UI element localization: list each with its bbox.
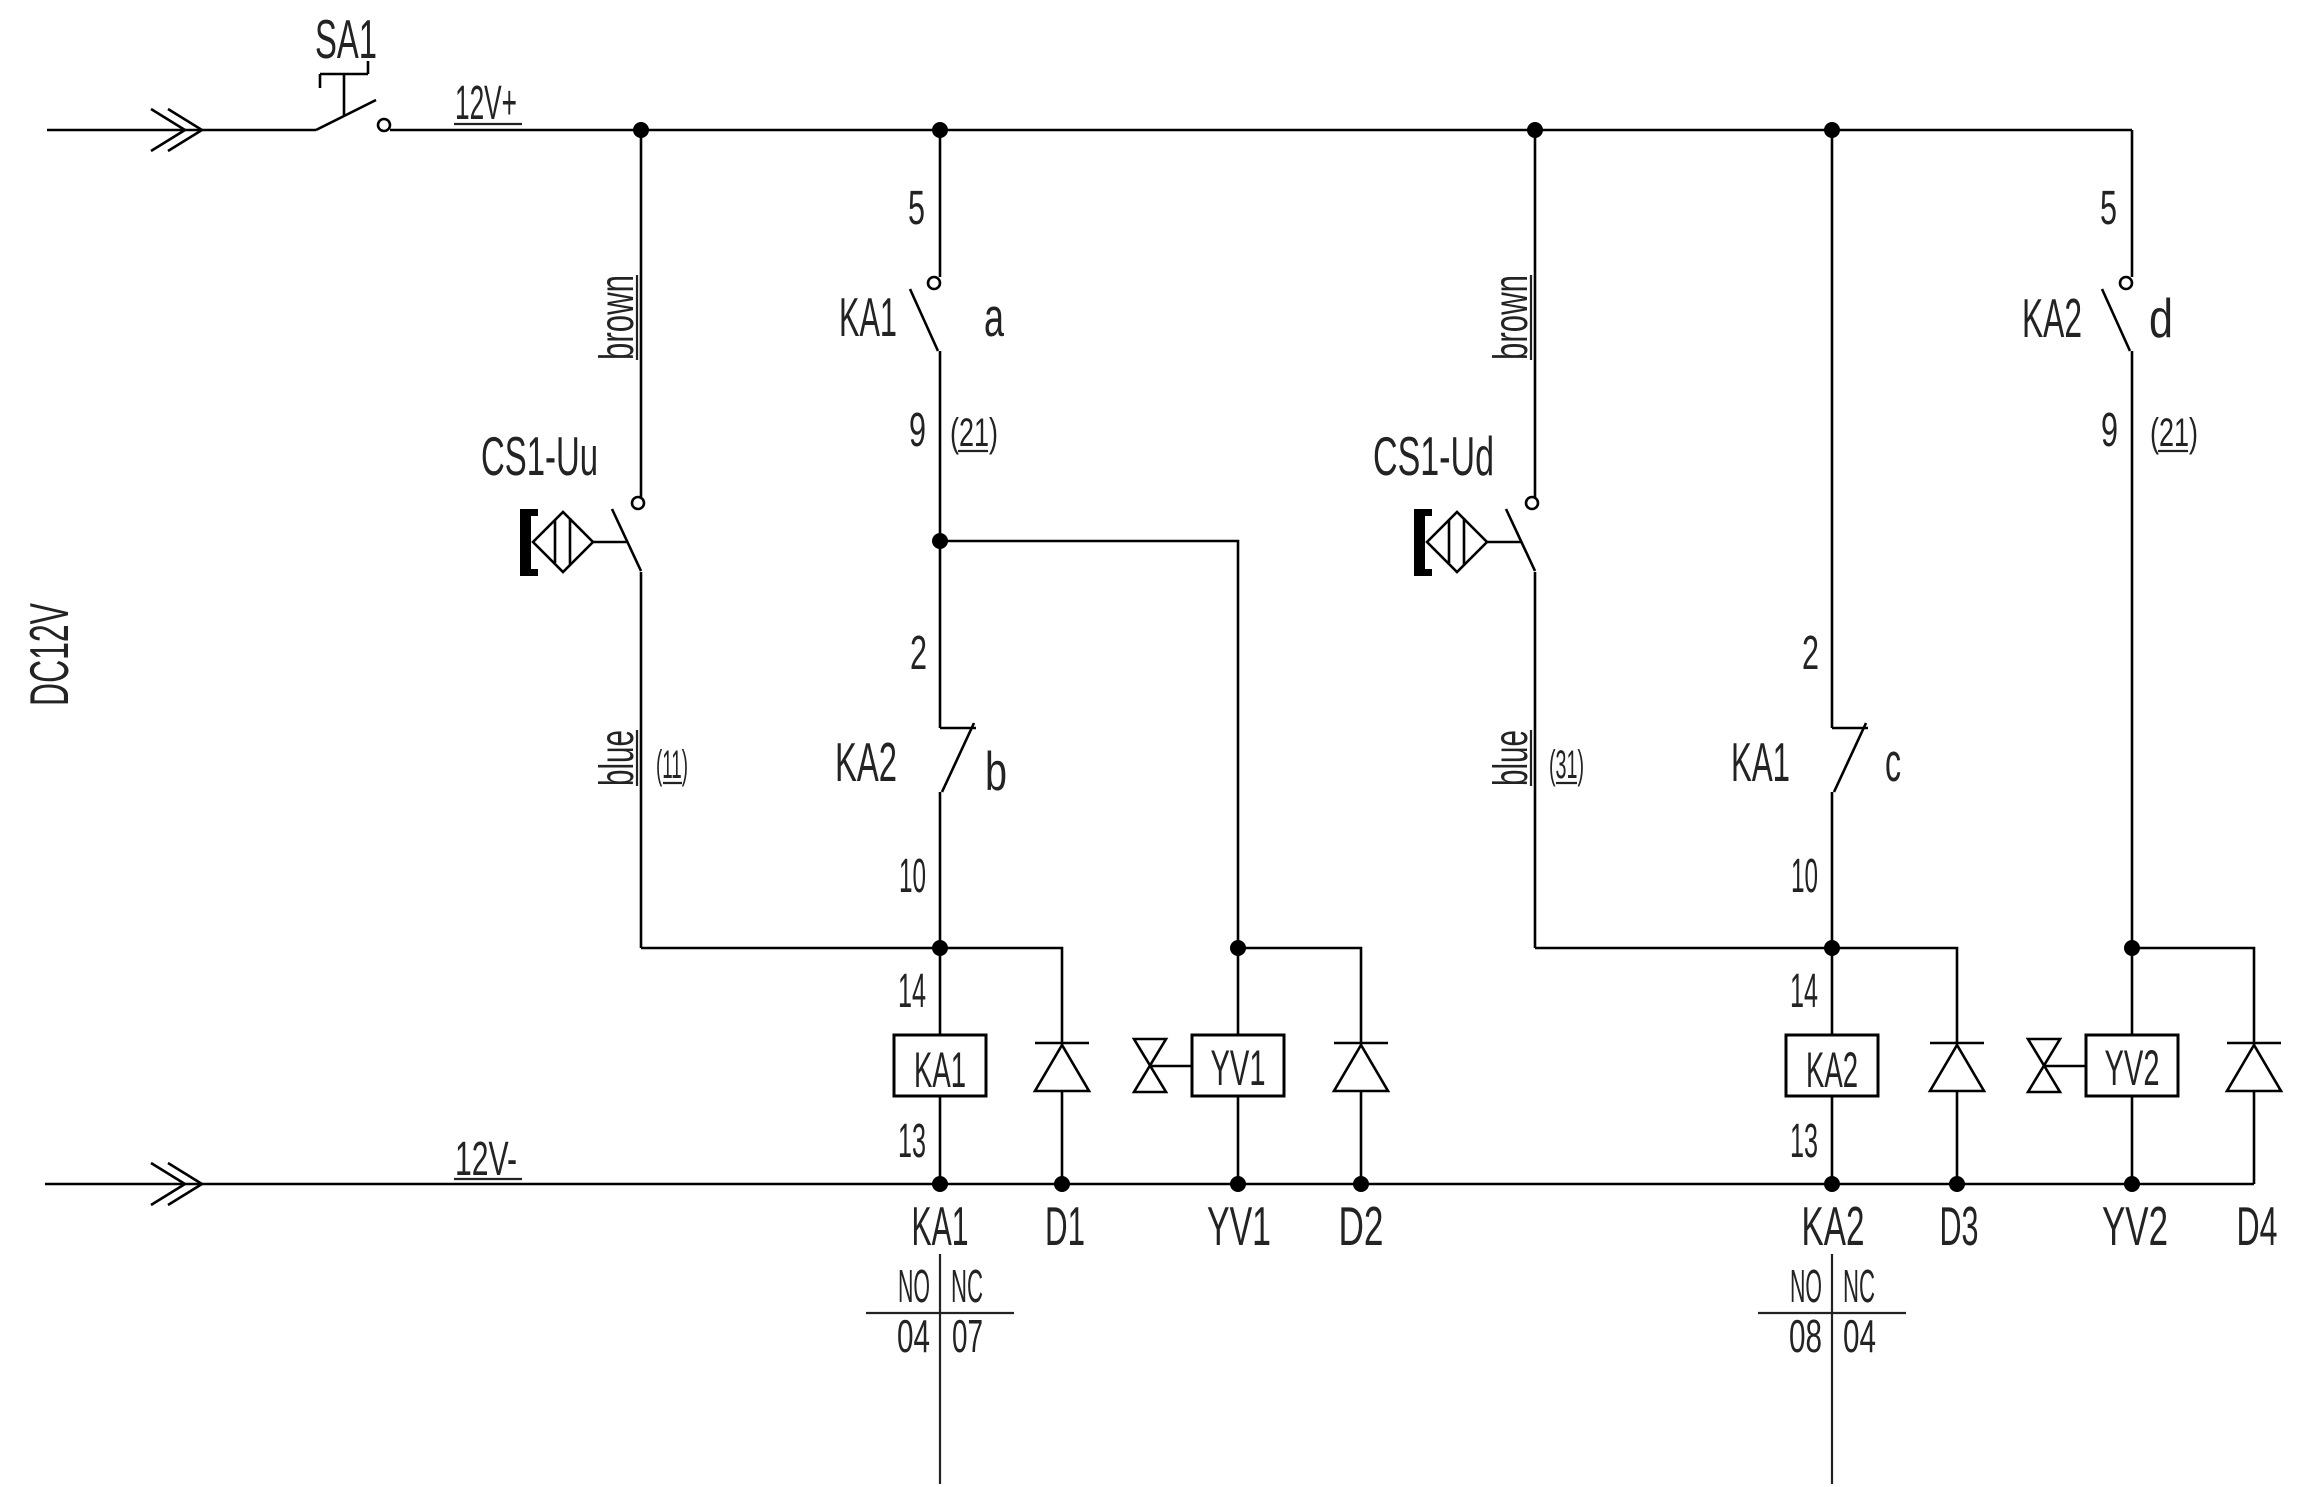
- svg-text:D4: D4: [2237, 1195, 2278, 1257]
- junction dot rail/KA1 coil: [932, 1176, 948, 1192]
- junction dot (2132,948): [2124, 940, 2140, 956]
- wire: KA2 chain rail to contact c: [1831, 130, 1834, 728]
- svg-text:KA2: KA2: [2022, 287, 2082, 349]
- svg-text:(21): (21): [2150, 411, 2198, 455]
- switch SA1 manual actuator: [320, 61, 368, 116]
- svg-text:YV2: YV2: [2105, 1040, 2160, 1096]
- svg-text:KA2: KA2: [1802, 1195, 1865, 1257]
- sensor CS1-Ud contact circle: [1526, 497, 1538, 509]
- wire: node to KA1 coil: [939, 948, 942, 1035]
- wire: blue drop right: [1534, 572, 1537, 948]
- wire: D2 to 12V- rail: [1360, 1091, 1363, 1184]
- switch SA1 blade: [316, 100, 376, 130]
- solenoid valve symbol YV2: [2028, 1039, 2086, 1092]
- svg-text:D1: D1: [1045, 1195, 1085, 1257]
- power entry chevron arrows (top left): [151, 109, 202, 151]
- svg-text:YV1: YV1: [1207, 1195, 1271, 1257]
- svg-text:KA1: KA1: [912, 1195, 969, 1257]
- svg-text:D3: D3: [1940, 1195, 1979, 1257]
- wire: YV1 coil to 12V- rail: [1237, 1096, 1240, 1184]
- wire: KA2-d contact to YV2 node: [2131, 351, 2134, 948]
- junction dot rail/D1: [1054, 1176, 1070, 1192]
- svg-text:KA1: KA1: [914, 1042, 966, 1098]
- sensor CS1-Uu diamond: [533, 512, 593, 572]
- switch SA1 fixed contact circle: [378, 119, 390, 131]
- wire: jog to YV1 drop: [940, 541, 1238, 948]
- svg-text:c: c: [1885, 731, 1901, 793]
- net tag (31): [1549, 743, 1584, 787]
- sensor CS1-Ud bracket: [1414, 509, 1432, 576]
- junction dot rail/YV2: [2124, 1176, 2140, 1192]
- junction dot brown-left / top rail: [633, 122, 649, 138]
- diode D2: [1334, 1043, 1388, 1091]
- svg-text:DC12V: DC12V: [18, 603, 80, 706]
- svg-text:b: b: [985, 740, 1007, 802]
- junction dot (940,541): [932, 533, 948, 549]
- diode D4: [2227, 1043, 2281, 1091]
- svg-text:9: 9: [909, 404, 926, 457]
- svg-text:9: 9: [2101, 404, 2118, 457]
- net label 12V+: [454, 77, 522, 130]
- contact table KA1 cross: [866, 1254, 1014, 1484]
- svg-text:2: 2: [910, 627, 927, 680]
- svg-text:07: 07: [952, 1310, 983, 1362]
- junction dot rail/KA2 coil: [1824, 1176, 1840, 1192]
- wire: D4 to 12V- rail: [2253, 1091, 2256, 1184]
- svg-text:(21): (21): [950, 411, 998, 455]
- junction dot (1832,948): [1824, 940, 1840, 956]
- svg-text:YV1: YV1: [1211, 1040, 1266, 1096]
- wire: KA2-d chain drop from rail corner: [2131, 130, 2134, 277]
- svg-text:14: 14: [1790, 965, 1818, 1018]
- wire: YV2 coil to 12V- rail: [2131, 1096, 2134, 1184]
- contact KA1 a (NO): [910, 277, 940, 351]
- svg-text:NC: NC: [951, 1260, 983, 1312]
- wire: blue drop left: [640, 572, 643, 948]
- sensor CS1-Uu link: [593, 541, 627, 544]
- wire label blue (left, underlined): [591, 730, 644, 786]
- net label 12V-: [454, 1133, 522, 1186]
- contact KA2 d (NO): [2102, 277, 2132, 351]
- wire: KA1 chain node to contact b: [939, 541, 942, 728]
- svg-text:D2: D2: [1339, 1195, 1384, 1257]
- wire: brown drop right: [1534, 130, 1537, 497]
- wire: KA1 coil to 12V- rail: [939, 1096, 942, 1184]
- junction dot YV1 (1238,948): [1230, 940, 1246, 956]
- svg-text:KA1: KA1: [1731, 731, 1790, 793]
- svg-text:13: 13: [898, 1115, 926, 1168]
- wire: KA2 chain contact c to node: [1831, 792, 1834, 948]
- solenoid coil YV2 box: [2086, 1035, 2178, 1096]
- wire: 12V+ top rail right of SA1: [390, 129, 2132, 132]
- svg-text:5: 5: [908, 182, 925, 235]
- svg-text:04: 04: [897, 1310, 930, 1362]
- svg-text:CS1-Ud: CS1-Ud: [1373, 425, 1494, 487]
- wire: YV1 node to D2 drop: [1238, 948, 1361, 1043]
- wire: 12V+ top rail left segment: [47, 129, 316, 132]
- svg-text:12V+: 12V+: [455, 77, 517, 130]
- wire: D3 to 12V- rail: [1956, 1091, 1959, 1184]
- svg-text:(31): (31): [1549, 743, 1584, 787]
- junction dot rail/YV1: [1230, 1176, 1246, 1192]
- wire: node to D3 drop: [1832, 948, 1957, 1043]
- svg-text:04: 04: [1843, 1310, 1876, 1362]
- svg-text:(11): (11): [656, 743, 688, 787]
- svg-text:NC: NC: [1843, 1260, 1875, 1312]
- svg-text:14: 14: [898, 965, 926, 1018]
- wire: KA2 coil to 12V- rail: [1831, 1096, 1834, 1184]
- sensor CS1-Ud link: [1487, 541, 1521, 544]
- junction dot rail/D3: [1949, 1176, 1965, 1192]
- solenoid valve symbol YV1: [1134, 1039, 1192, 1092]
- wire: horizontal blue-left to KA1 node: [641, 947, 940, 950]
- junction dot rail/D2: [1353, 1176, 1369, 1192]
- junction dot brown-right / top rail: [1527, 122, 1543, 138]
- net tag (21) left: [950, 411, 998, 455]
- junction dot KA2 chain / top rail: [1824, 122, 1840, 138]
- svg-text:13: 13: [1790, 1115, 1818, 1168]
- svg-text:2: 2: [1802, 627, 1819, 680]
- junction dot KA1 chain / top rail: [932, 122, 948, 138]
- sensor CS1-Uu bracket: [520, 509, 538, 576]
- svg-text:KA2: KA2: [1806, 1042, 1858, 1098]
- diode D3: [1930, 1043, 1984, 1091]
- power entry chevron arrows (bottom left): [151, 1163, 202, 1205]
- svg-text:SA1: SA1: [315, 8, 377, 70]
- wire: node to D1 drop: [940, 948, 1062, 1043]
- contact KA1 c (NC): [1832, 723, 1868, 792]
- svg-text:a: a: [984, 286, 1004, 348]
- wire: KA1 chain rail to contact a: [939, 130, 942, 277]
- svg-text:NO: NO: [1790, 1260, 1822, 1312]
- net tag (11): [656, 743, 688, 787]
- sensor CS1-Ud diamond: [1427, 512, 1487, 572]
- wire: D1 to 12V- rail: [1061, 1091, 1064, 1184]
- contact KA2 b (NC): [940, 723, 976, 792]
- svg-text:CS1-Uu: CS1-Uu: [481, 425, 598, 487]
- sensor CS1-Uu contact blade: [612, 509, 641, 571]
- diode D1: [1035, 1043, 1089, 1091]
- wire: KA1 chain contact a to node (940,541): [939, 351, 942, 541]
- junction dot (940,948): [932, 940, 948, 956]
- solenoid coil YV1 box: [1192, 1035, 1284, 1096]
- svg-text:5: 5: [2100, 182, 2117, 235]
- svg-text:YV2: YV2: [2102, 1195, 2168, 1257]
- wire label blue (right, underlined): [1485, 730, 1538, 786]
- wire: node to YV2 coil: [2131, 948, 2134, 1036]
- wire: YV1 node to coil: [1237, 948, 1240, 1036]
- svg-text:NO: NO: [898, 1260, 930, 1312]
- wire: KA1 chain contact b to node (940,948): [939, 792, 942, 948]
- svg-text:KA1: KA1: [839, 286, 897, 348]
- contact table KA2 cross: [1758, 1254, 1906, 1484]
- svg-text:10: 10: [1791, 850, 1818, 903]
- svg-text:10: 10: [899, 850, 926, 903]
- wire label brown (right, underlined): [1485, 275, 1538, 360]
- net tag (21) right: [2150, 411, 2198, 455]
- svg-text:KA2: KA2: [835, 731, 897, 793]
- svg-text:08: 08: [1789, 1310, 1822, 1362]
- wire label brown (left, underlined): [591, 275, 644, 360]
- wire: node to KA2 coil: [1831, 948, 1834, 1035]
- wire: node to D4 drop: [2132, 948, 2254, 1043]
- sensor CS1-Ud contact blade: [1506, 509, 1535, 571]
- wire: horizontal blue-right to KA2 node: [1535, 947, 1832, 950]
- wire: 12V- bottom rail: [45, 1183, 2254, 1186]
- relay coil KA2 box: [1786, 1035, 1878, 1096]
- wire: brown drop left: [640, 130, 643, 497]
- relay coil KA1 box: [894, 1035, 986, 1096]
- svg-text:d: d: [2149, 287, 2173, 349]
- sensor CS1-Uu contact circle: [632, 497, 644, 509]
